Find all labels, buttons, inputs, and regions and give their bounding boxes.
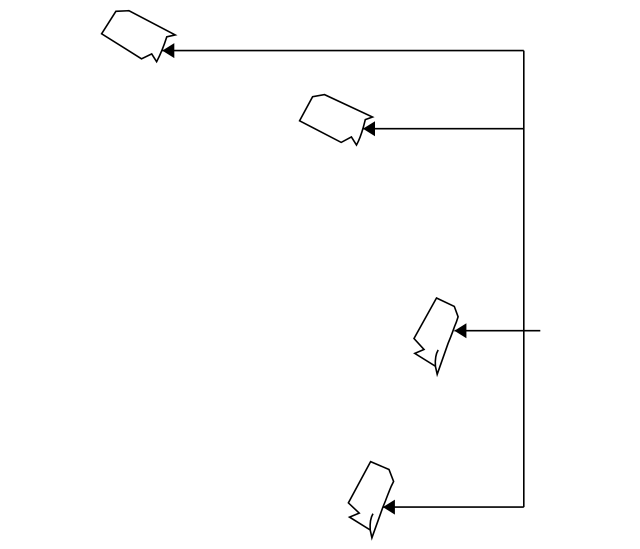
arrowhead A1 <box>162 43 174 58</box>
wire: branch 1 (to top-left document) <box>162 50 524 52</box>
wire: vertical trunk <box>523 51 525 508</box>
arrowhead A3 <box>454 323 466 338</box>
document node D2 (second torn paper) <box>300 95 373 145</box>
document node D1 (top-left torn paper) <box>102 11 176 62</box>
document node D3 (third torn paper, portrait) <box>414 298 458 374</box>
wire: branch 2 (to second document) <box>363 128 524 130</box>
arrowhead A4 <box>383 500 395 515</box>
fold crease arc of D3 <box>435 350 438 366</box>
document node D4 (bottom torn paper, portrait) <box>348 462 393 538</box>
wire: branch 3 (to third document, stub past trunk) <box>454 330 540 332</box>
fold crease arc of D4 <box>370 514 373 530</box>
arrowhead A2 <box>363 121 375 136</box>
wire: branch 4 (to bottom document) <box>383 506 524 508</box>
